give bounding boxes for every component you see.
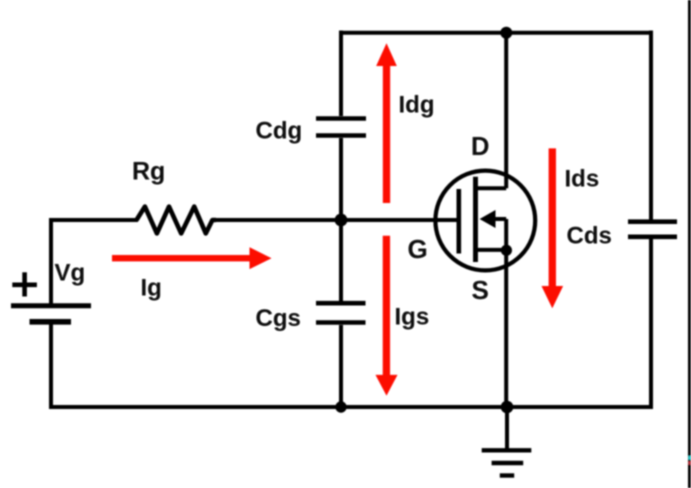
svg-text:Cds: Cds (567, 223, 612, 250)
svg-text:Idg: Idg (399, 91, 435, 118)
wire: ground stem (505, 407, 509, 451)
transistor gate bar (456, 189, 461, 254)
node gate junction dot (335, 214, 348, 227)
node top rail drain junction dot (500, 27, 512, 39)
wire: gate node down to Cgs top plate (339, 220, 343, 301)
capacitor Cds (628, 219, 677, 224)
battery plus sign (12, 282, 37, 287)
red arrow Ids shaft (549, 148, 556, 288)
node bottom rail source junction dot (501, 401, 514, 414)
wire: middle rail from resistor to MOSFET gate (212, 218, 457, 222)
resistor Rg zigzag (137, 207, 217, 234)
transistor body arrow shaft (493, 217, 506, 221)
ground (482, 448, 532, 452)
artifact dots on right edge (688, 456, 691, 460)
battery Vg short plate (30, 319, 72, 325)
wire: right rail vertical upper (top rail to Cds) (649, 31, 653, 221)
transistor drain tap (478, 186, 507, 190)
wire: middle rail left segment (49, 218, 138, 222)
transistor channel bar (473, 177, 478, 262)
transistor body-source connector (504, 219, 508, 250)
svg-text:G: G (408, 234, 428, 264)
svg-text:S: S (472, 275, 489, 305)
svg-text:D: D (471, 133, 489, 161)
svg-text:Igs: Igs (395, 303, 430, 330)
wire: Cgs bottom plate to bottom rail (339, 325, 343, 407)
transistor body arrow head (480, 210, 496, 228)
node source dot (501, 245, 512, 256)
transistor MOSFET body circle (435, 171, 535, 271)
capacitor Cdg (316, 116, 366, 121)
wire: right rail vertical lower (Cds to bottom rail) (649, 239, 653, 409)
frame edge line at far right (688, 0, 691, 488)
battery Vg long plate (11, 303, 91, 308)
wire: drain vertical (top rail to drain tap) (504, 33, 508, 189)
red arrow Ids head (542, 286, 564, 308)
wire: left source wire vertical upper (49, 218, 53, 305)
capacitor Cgs (316, 301, 366, 306)
svg-text:Ids: Ids (565, 165, 600, 192)
red arrow Idg head (376, 43, 397, 66)
svg-text:Vg: Vg (55, 259, 86, 286)
red arrow Igs shaft (383, 236, 390, 378)
red arrow Ig head (250, 247, 272, 269)
wire: source vertical (source dot to bottom rail) (504, 250, 508, 407)
svg-text:Cgs: Cgs (256, 305, 301, 332)
wire: battery bottom to bottom rail (49, 325, 53, 410)
svg-text:Ig: Ig (141, 274, 162, 301)
red arrow Ig shaft (112, 255, 252, 261)
wire: Cdg bottom plate to gate node (339, 138, 343, 220)
wire: left vertical of Cdg/Cgs branch upper (top rail to Cdg top plate) (339, 31, 343, 117)
node bottom-left junction dot (335, 401, 346, 412)
wire: bottom rail (49, 405, 653, 409)
svg-text:Cdg: Cdg (256, 118, 303, 145)
red arrow Idg shaft (383, 62, 390, 203)
svg-text:Rg: Rg (132, 158, 165, 186)
wire: top rail (339, 31, 653, 35)
red arrow Igs head (376, 375, 398, 396)
transistor source tap (478, 248, 507, 252)
